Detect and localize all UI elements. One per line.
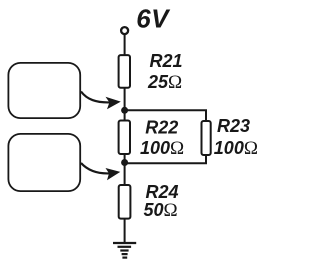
resistor R22 xyxy=(119,121,130,155)
svg-text:R22: R22 xyxy=(145,117,178,137)
callout box 1 xyxy=(8,63,80,118)
svg-text:100Ω: 100Ω xyxy=(214,138,258,159)
power terminal 6V (open circle) xyxy=(121,27,128,34)
svg-text:25Ω: 25Ω xyxy=(147,72,182,93)
wire: main vertical from 6V terminal to ground xyxy=(124,35,126,244)
node A (junction dot) xyxy=(121,107,128,114)
svg-text:6V: 6V xyxy=(136,4,171,34)
svg-text:50Ω: 50Ω xyxy=(144,200,178,221)
svg-text:R24: R24 xyxy=(146,182,179,202)
svg-text:R21: R21 xyxy=(150,51,183,71)
arrow 2 (box 2 to node B) xyxy=(81,163,120,180)
resistor R23 xyxy=(202,121,211,155)
resistor R24 xyxy=(119,185,131,219)
callout box 2 xyxy=(8,134,80,191)
node B (junction dot) xyxy=(121,159,128,166)
ground xyxy=(113,243,136,258)
wire: bottom branch R23 bottom to node B xyxy=(125,155,206,163)
arrow 1 (box 1 to node A) xyxy=(81,92,121,110)
svg-text:100Ω: 100Ω xyxy=(140,138,184,159)
resistor R21 xyxy=(119,55,130,88)
svg-text:R23: R23 xyxy=(217,116,250,136)
wire: top branch node A to R23 top xyxy=(125,110,206,122)
